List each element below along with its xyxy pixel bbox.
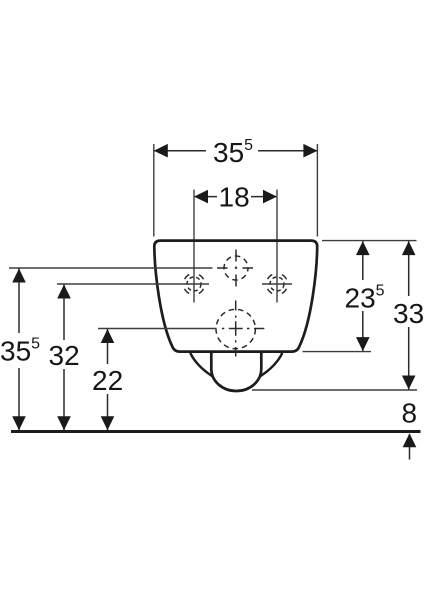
dimension 18: dimension line right segment (251, 196, 276, 198)
dimension 18: right arrowhead (263, 190, 277, 204)
dimension 33: top arrowhead (402, 241, 416, 255)
outlet spout: central tube U shape (211, 353, 261, 391)
dimension 22: extension line at outlet height (98, 328, 217, 330)
dimension 355 left: vertical dimension line lower segment (18, 368, 20, 430)
svg-text:18: 18 (219, 182, 250, 213)
dimension 32: top arrowhead (57, 285, 71, 299)
dimension 18: right extension line / right hole vertical centerline (276, 190, 278, 303)
floor line (11, 430, 421, 433)
dimension 355 left: vertical dimension line upper segment (18, 269, 20, 334)
outlet spout: left bell curve (190, 353, 212, 376)
dimension 18: dimension line left segment (195, 196, 217, 198)
dimension 22: vertical dimension line lower segment (107, 394, 109, 430)
water inlet: horizontal centerline dash-dot (217, 267, 253, 269)
outlet connection: vertical centerline dash-dot (235, 301, 237, 357)
dimension 33: vertical dimension line upper segment (408, 241, 410, 296)
dimension 235: top arrowhead (356, 241, 370, 255)
dimension 355 top: right arrowhead (303, 144, 317, 158)
right fixing hole: horizontal centerline (262, 283, 292, 285)
dimension 355 top: dimension line left segment (155, 150, 207, 152)
dimension 8: up arrowhead below floor line (403, 433, 417, 447)
dimension 8: tail line below floor (409, 434, 411, 460)
dimension 235: vertical dimension line upper segment (362, 241, 364, 280)
svg-text:33: 33 (393, 298, 424, 329)
dimension 22: vertical dimension line upper segment (107, 329, 109, 364)
left fixing hole: outer thread arcs (180, 270, 209, 299)
right side: extension line at bottom of bowl (303, 351, 372, 353)
dimension 32: bottom arrowhead (57, 416, 71, 430)
dimension 355 top: dimension line right segment (258, 150, 317, 152)
dimension 32: vertical dimension line lower segment (63, 369, 65, 430)
dimension 355 left: extension line at inlet height (9, 267, 213, 269)
right side: extension line at bottom of outlet spout (252, 389, 417, 391)
right fixing hole: outer thread arcs (263, 270, 292, 299)
dimension 235: bottom arrowhead (356, 337, 370, 351)
dimension 18: left arrowhead (194, 190, 208, 204)
dimension 355 left: top arrowhead (12, 269, 26, 283)
outlet connection: dashed circle (216, 309, 255, 348)
water inlet: dashed circle (224, 256, 248, 280)
dimension 355 top: right extension line (316, 144, 318, 237)
dimension 33: vertical dimension line lower segment (408, 327, 410, 390)
WC body outline (rear view) (154, 241, 317, 352)
dimension 33: bottom arrowhead (402, 376, 416, 390)
svg-text:32: 32 (49, 340, 80, 371)
dimension 235: vertical dimension line lower segment (362, 311, 364, 351)
outlet spout: right bell curve (260, 353, 282, 376)
dimension 32: extension line at fixing hole height (57, 283, 180, 285)
dimension 22: top arrowhead (101, 329, 115, 343)
dimension 355 top: left extension line (153, 144, 155, 237)
dimension 22: bottom arrowhead (101, 416, 115, 430)
dimension 355 left: bottom arrowhead (12, 416, 26, 430)
right fixing hole: inner dashed circle (270, 277, 284, 291)
outlet connection: horizontal centerline dash-dot (222, 328, 264, 330)
svg-text:22: 22 (92, 365, 123, 396)
left fixing hole: horizontal centerline (180, 283, 209, 285)
water inlet: vertical centerline dash-dot (235, 250, 237, 287)
dimension 32: vertical dimension line upper segment (63, 285, 65, 341)
svg-text:8: 8 (402, 398, 418, 429)
dimension 18: left extension line / left hole vertical centerline (193, 190, 195, 303)
right side: extension line at top of bowl (322, 240, 417, 242)
left fixing hole: inner dashed circle (187, 277, 201, 291)
dimension 355 top: left arrowhead (154, 144, 168, 158)
